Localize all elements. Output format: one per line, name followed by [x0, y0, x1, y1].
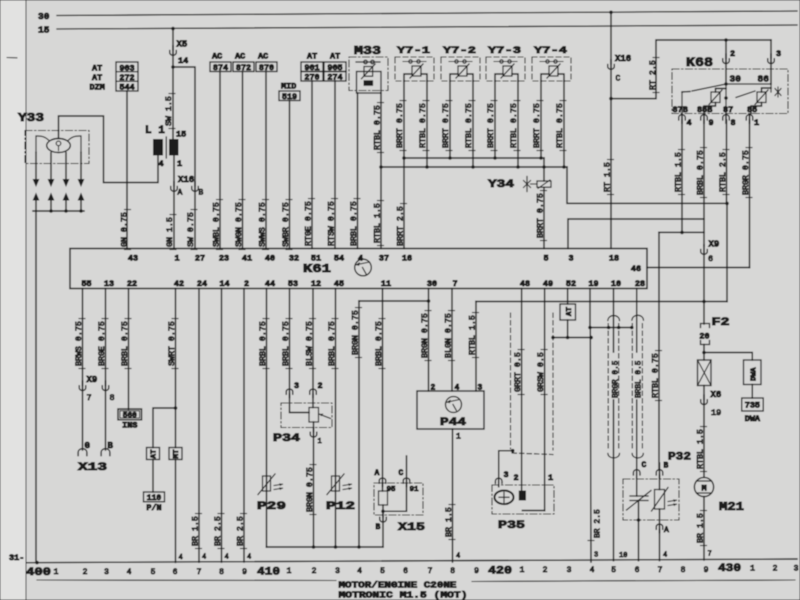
svg-text:P34: P34 — [273, 433, 301, 445]
svg-text:BRBL 0.75: BRBL 0.75 — [259, 321, 268, 366]
svg-text:BLSW 0.75: BLSW 0.75 — [305, 321, 314, 366]
fuel pump motor M21 (in-tank) — [694, 477, 713, 496]
svg-text:C: C — [399, 469, 404, 478]
svg-text:BRGR 0.5: BRGR 0.5 — [612, 360, 620, 398]
svg-text:BRBL 0.75: BRBL 0.75 — [282, 321, 291, 366]
svg-text:31-: 31- — [9, 553, 24, 563]
svg-text:A: A — [375, 469, 380, 478]
svg-text:F2: F2 — [712, 317, 730, 329]
svg-text:7: 7 — [452, 279, 457, 289]
svg-text:7: 7 — [658, 566, 663, 575]
connector X16 pin B — [192, 187, 199, 192]
wire BRWS 0.75 K61-55 to X13-G — [82, 289, 84, 386]
wire RTBL 0.75 Y7-3 to supply bus — [517, 81, 519, 167]
svg-text:52: 52 — [566, 279, 576, 289]
connector X6 pin 19 — [703, 386, 705, 400]
svg-text:420: 420 — [488, 566, 512, 578]
connector X9 pin 8 — [102, 386, 109, 391]
svg-text:GN 0.75: GN 0.75 — [120, 212, 129, 247]
K68 pin 3 — [768, 59, 775, 64]
svg-text:24: 24 — [197, 279, 207, 289]
svg-text:48: 48 — [520, 279, 530, 289]
wire GRRT 0.5 K61-48 to P35 pin 2 (shielded) — [521, 289, 523, 492]
wire BRGN 0.75 P34-1 to sensor ground bus — [313, 436, 315, 547]
svg-text:RTBL 0.75: RTBL 0.75 — [419, 103, 428, 148]
svg-text:X16: X16 — [615, 54, 631, 64]
svg-text:5: 5 — [543, 254, 548, 264]
svg-text:X6: X6 — [711, 390, 722, 400]
K68 pin 4 — [679, 115, 686, 120]
svg-text:RTBL 0.75: RTBL 0.75 — [373, 105, 382, 150]
svg-text:AC: AC — [258, 52, 268, 62]
svg-text:11: 11 — [381, 279, 391, 289]
svg-text:BRGN 0.75: BRGN 0.75 — [306, 467, 315, 512]
svg-text:872: 872 — [236, 63, 251, 73]
connector X5 pin 14 — [172, 29, 174, 50]
svg-text:18: 18 — [609, 254, 619, 264]
Y33 spark gap arrows — [35, 153, 37, 180]
svg-text:4: 4 — [456, 553, 460, 561]
svg-text:15: 15 — [38, 25, 50, 36]
svg-text:30: 30 — [38, 11, 50, 22]
intake air temp sensor P12 — [332, 476, 340, 491]
svg-text:Y34: Y34 — [488, 179, 515, 191]
svg-text:P/N: P/N — [146, 503, 161, 513]
svg-text:1: 1 — [318, 438, 322, 446]
svg-text:7: 7 — [87, 393, 92, 403]
option box DWA — [744, 360, 762, 385]
svg-text:2: 2 — [83, 568, 88, 577]
svg-text:BRRT 0.75: BRRT 0.75 — [533, 103, 542, 148]
wire BRBL 0.5 K61-28 to P32 pin C — [636, 289, 638, 353]
option branch to AT box — [153, 408, 176, 448]
wire GRSW 0.5 K61-49 to P35 pin 1 (shielded) — [544, 289, 546, 511]
svg-text:BRGN 0.75: BRGN 0.75 — [421, 313, 430, 358]
svg-text:27: 27 — [195, 254, 205, 264]
svg-text:6: 6 — [403, 567, 408, 576]
svg-text:2: 2 — [730, 49, 735, 59]
supply net RTBL to F2 junction — [476, 301, 727, 303]
svg-text:K61: K61 — [303, 262, 331, 276]
svg-text:INS: INS — [122, 421, 137, 431]
svg-text:4: 4 — [358, 254, 363, 264]
svg-text:2: 2 — [312, 567, 317, 576]
junction on net 15 at X5 drop — [171, 27, 175, 31]
svg-text:6: 6 — [173, 568, 178, 577]
wire SWBR 0.75 to K61 pin 32 — [289, 101, 291, 249]
svg-text:1: 1 — [456, 433, 461, 442]
Y33 common bus — [33, 210, 84, 212]
coolant temp sensor P29 — [263, 476, 271, 491]
wire RTBL 1.5 supply to P44 pin 3 — [475, 302, 477, 392]
option box AT on K61-52 — [567, 289, 569, 305]
P44 pin 1 to rail — [452, 429, 454, 562]
svg-text:42: 42 — [174, 279, 184, 289]
svg-text:30: 30 — [730, 74, 742, 85]
svg-text:49: 49 — [543, 279, 553, 289]
svg-text:901: 901 — [304, 63, 319, 73]
svg-text:110: 110 — [147, 494, 162, 503]
wire BR 2.5 K61-2 to rail — [243, 289, 245, 563]
throttle potentiometer P34 — [281, 403, 332, 428]
svg-text:7: 7 — [197, 568, 202, 577]
svg-text:2: 2 — [244, 279, 249, 289]
svg-text:A: A — [664, 526, 669, 535]
svg-text:BRGE 0.75: BRGE 0.75 — [98, 321, 107, 366]
svg-text:430: 430 — [718, 563, 741, 575]
svg-text:8: 8 — [110, 393, 115, 403]
ground wire Y33 to rail 31 — [35, 211, 37, 563]
svg-text:4: 4 — [687, 118, 692, 128]
svg-text:12: 12 — [311, 279, 321, 289]
svg-text:1: 1 — [750, 565, 755, 574]
svg-text:BRRT 0.75: BRRT 0.75 — [487, 103, 496, 148]
svg-text:P32: P32 — [668, 452, 691, 464]
svg-text:RTBL 1.5: RTBL 1.5 — [674, 152, 683, 192]
K68 coil 2 — [757, 92, 766, 103]
svg-text:1: 1 — [754, 118, 759, 128]
wire RT 2.5 feed to relay K68 — [611, 40, 771, 99]
svg-text:RTBL 0.75: RTBL 0.75 — [510, 103, 519, 148]
svg-text:7: 7 — [428, 567, 433, 576]
svg-text:4: 4 — [159, 159, 164, 169]
svg-text:5: 5 — [151, 568, 156, 577]
K68 pin 8 — [723, 115, 730, 120]
sensor ground bus — [267, 546, 384, 548]
wire L1 terminal 1 to X16-A — [173, 155, 175, 186]
svg-text:K68: K68 — [686, 56, 713, 70]
svg-text:2: 2 — [773, 565, 778, 574]
svg-text:BRBL 0.75: BRBL 0.75 — [328, 321, 337, 366]
P32 pin A to rail — [659, 509, 661, 524]
cable shield tube around BRBL 0.5 — [632, 315, 644, 320]
svg-text:3: 3 — [504, 470, 509, 480]
svg-text:SWWS 0.75: SWWS 0.75 — [258, 202, 267, 247]
knock sensor P35 — [492, 485, 554, 514]
K68 internal contact 30 — [724, 82, 728, 86]
svg-text:2: 2 — [318, 381, 323, 391]
svg-text:BRRT 0.75: BRRT 0.75 — [442, 103, 451, 148]
connector X15 pin B — [382, 511, 384, 517]
svg-text:8: 8 — [731, 118, 736, 128]
svg-text:3: 3 — [335, 567, 340, 576]
wire RTBL 1.5 K68-4 to P32 junction — [659, 231, 704, 233]
svg-text:AT: AT — [151, 449, 159, 459]
svg-text:SWRT 0.75: SWRT 0.75 — [168, 321, 177, 366]
wire RTBL 0.75 Y7-4 to supply bus — [563, 81, 565, 167]
svg-text:B: B — [199, 189, 204, 198]
svg-text:MID: MID — [281, 82, 296, 92]
svg-text:15: 15 — [176, 130, 186, 140]
svg-text:7: 7 — [708, 551, 712, 559]
wire supply bus to relay K68 contact 87 — [567, 167, 727, 203]
wire RTBL 0.75 to P32 pin B — [658, 232, 660, 470]
svg-text:37: 37 — [379, 254, 389, 264]
option box AT — [147, 448, 160, 460]
svg-text:43: 43 — [128, 254, 138, 264]
svg-text:M21: M21 — [719, 500, 744, 514]
wire BRGR 0.5 K61-10 to rail — [613, 289, 615, 353]
svg-text:86: 86 — [758, 74, 770, 85]
svg-text:2: 2 — [514, 473, 519, 483]
svg-text:4: 4 — [202, 554, 206, 562]
wire BRGR 0.75 K68-1 to K61 pin 46 — [749, 120, 751, 268]
svg-text:RT 1.5: RT 1.5 — [603, 162, 612, 192]
svg-text:5: 5 — [611, 566, 616, 575]
svg-text:MT: MT — [173, 449, 181, 459]
ECU K61 Motronic control unit — [70, 249, 647, 289]
cable shield tube around BRGR 0.5 — [608, 316, 620, 321]
svg-text:DZM: DZM — [90, 83, 105, 93]
K68 coil 1 — [711, 92, 720, 103]
wire BRGN 0.75 sensor ground to K61-30 branch — [358, 301, 360, 547]
svg-text:8: 8 — [681, 566, 686, 575]
svg-text:410: 410 — [257, 567, 280, 579]
svg-text:13: 13 — [104, 279, 114, 289]
svg-text:AC: AC — [235, 52, 245, 62]
svg-text:SWGN 0.75: SWGN 0.75 — [235, 202, 244, 247]
svg-text:BR 1.5: BR 1.5 — [696, 513, 705, 543]
branch to anti-theft DWA — [704, 353, 752, 361]
svg-text:GRSW 0.5: GRSW 0.5 — [537, 352, 546, 392]
wire BRBL 0.75 K61-53 to P34 pin 3 — [289, 289, 291, 389]
system label bracket — [37, 579, 336, 582]
wire RTBL 0.75 Y7-2 to supply bus — [472, 81, 474, 167]
wire BRRT 0.75 Y7-4 to injector bus — [540, 81, 542, 158]
injector supply bus RTBL — [381, 166, 567, 168]
svg-text:19: 19 — [711, 408, 721, 418]
wire BRRT 0.75 Y7-2 to injector bus — [449, 81, 451, 158]
svg-text:P44: P44 — [440, 417, 467, 429]
svg-text:87B: 87B — [673, 105, 688, 115]
wire BRRT 0.75 Y7-3 to injector bus — [494, 81, 496, 158]
svg-text:46: 46 — [631, 264, 641, 274]
junction M33 wire on injector supply bus — [379, 165, 383, 169]
svg-text:B: B — [376, 523, 381, 532]
svg-text:9: 9 — [474, 567, 479, 576]
svg-text:28: 28 — [635, 279, 645, 289]
svg-text:1: 1 — [520, 566, 525, 575]
svg-text:8: 8 — [450, 567, 455, 576]
wire RTGE 0.75 to K61 pin 51 — [311, 81, 313, 249]
wire RT 1.5 X16-C to K61 pin 18 — [610, 68, 612, 249]
svg-text:SW 0.75: SW 0.75 — [187, 212, 196, 247]
svg-text:P35: P35 — [498, 520, 526, 532]
option box MT — [169, 448, 182, 460]
wire L1 terminal 4 to distributor — [59, 116, 159, 183]
wire BRRT 0.75 Y34 to K61 pin 5 — [543, 167, 545, 181]
svg-text:BLGN 0.75: BLGN 0.75 — [444, 313, 453, 358]
wire X15-B to sensor ground bus — [382, 521, 384, 547]
svg-text:BRBL 0.75: BRBL 0.75 — [375, 321, 384, 366]
code box 110 P/N — [144, 492, 165, 502]
svg-text:9: 9 — [709, 118, 714, 128]
svg-text:RTBL 2.5: RTBL 2.5 — [719, 152, 728, 192]
svg-text:BRBL 0.5: BRBL 0.5 — [636, 360, 644, 398]
svg-text:44: 44 — [265, 279, 275, 289]
svg-text:8: 8 — [219, 568, 224, 577]
svg-text:SWBL 0.75: SWBL 0.75 — [212, 202, 221, 247]
K68 pin 9 — [701, 115, 708, 120]
svg-text:4: 4 — [357, 567, 362, 576]
svg-text:6: 6 — [708, 254, 713, 264]
svg-text:GN 1.5: GN 1.5 — [166, 217, 175, 247]
shield drain to P35 pin 3 — [511, 449, 515, 453]
svg-text:4: 4 — [225, 554, 229, 562]
svg-text:4: 4 — [179, 554, 183, 562]
svg-text:BRBL 0.75: BRBL 0.75 — [696, 150, 705, 195]
svg-text:45: 45 — [334, 279, 344, 289]
wire BRBL 0.75 K61-45 to P12 — [335, 289, 337, 548]
wire RTBL 1.5 K68-4 — [681, 120, 683, 232]
svg-text:272: 272 — [119, 73, 134, 83]
svg-text:905: 905 — [327, 63, 342, 73]
shield drain to P32 cable shields — [590, 327, 632, 329]
svg-text:AT: AT — [307, 52, 317, 62]
svg-text:3: 3 — [104, 568, 109, 577]
wire SW 1.5 from X5 to coil L1 terminal 15 — [172, 54, 174, 67]
svg-text:4: 4 — [663, 552, 667, 560]
svg-text:X13: X13 — [78, 462, 108, 474]
wire GN 0.75 to K61 pin 43 — [126, 91, 128, 249]
svg-text:X9: X9 — [709, 240, 720, 250]
svg-text:X16: X16 — [178, 175, 194, 185]
wire BRBL 0.75 K61-11 to X15-A — [382, 289, 384, 478]
injector return bus — [404, 157, 544, 159]
svg-text:1: 1 — [548, 473, 553, 483]
svg-text:Y7-1: Y7-1 — [397, 45, 430, 57]
wire BRBL 0.75 K61-22 to code 560 — [128, 289, 130, 410]
svg-text:3: 3 — [776, 49, 781, 59]
svg-text:RT 2.5: RT 2.5 — [649, 60, 658, 90]
svg-text:3: 3 — [594, 552, 598, 560]
wire K61-42 to ground rail — [175, 460, 177, 563]
svg-text:560: 560 — [123, 413, 137, 421]
junction on net 30 at X16-C drop — [609, 11, 613, 15]
cable shield around P35 wires — [510, 313, 512, 449]
wire SWWS 0.75 to K61 pin 40 — [265, 72, 267, 249]
svg-text:AT: AT — [330, 52, 340, 62]
svg-text:9: 9 — [704, 566, 709, 575]
svg-text:BR 2.5: BR 2.5 — [214, 516, 223, 546]
svg-text:P29: P29 — [257, 501, 286, 513]
svg-text:23: 23 — [219, 254, 229, 264]
svg-text:AT: AT — [566, 306, 574, 316]
wire BRBL 0.75 K68-9 to X9-6 — [703, 120, 705, 246]
svg-text:2: 2 — [543, 566, 548, 575]
shield drain wire K61-52 to shields — [567, 320, 569, 338]
svg-text:3: 3 — [568, 254, 573, 264]
svg-text:SW 1.5: SW 1.5 — [165, 96, 174, 126]
wire GN 1.5 X16-A to K61 pin 1 — [173, 190, 175, 249]
K68 pin 1 — [746, 115, 753, 120]
svg-text:SWBR 0.75: SWBR 0.75 — [282, 202, 291, 247]
wire BR 1.5 K61-24 to rail — [198, 289, 200, 563]
svg-text:10: 10 — [619, 552, 627, 560]
svg-text:M33: M33 — [354, 44, 381, 58]
svg-text:91: 91 — [410, 486, 420, 494]
wire K61 pin 3 to connector X9-6 — [568, 219, 704, 249]
svg-text:903: 903 — [119, 63, 134, 73]
svg-text:4: 4 — [247, 554, 251, 562]
lambda sensor heater X15 — [374, 483, 423, 515]
svg-text:51: 51 — [311, 254, 321, 264]
svg-text:RTSW 0.75: RTSW 0.75 — [327, 201, 336, 246]
svg-text:19: 19 — [588, 279, 598, 289]
wire BLSW 0.75 K61-12 to P34 pin 2 — [312, 289, 314, 389]
svg-text:6: 6 — [635, 566, 640, 575]
registration mark — [7, 57, 17, 59]
svg-text:BRBL 0.75: BRBL 0.75 — [121, 321, 130, 366]
svg-text:1: 1 — [287, 567, 292, 576]
svg-text:87: 87 — [723, 105, 733, 115]
svg-text:4: 4 — [127, 568, 132, 577]
P32 case ground to rail — [638, 520, 640, 561]
svg-text:MOTRONIC M1.5 (MOT): MOTRONIC M1.5 (MOT) — [339, 590, 468, 600]
svg-text:400: 400 — [26, 567, 51, 579]
wire BR 1.5 M21 to rail — [703, 497, 705, 560]
wire SW 0.75 X16-B to K61 pin 27 — [194, 190, 196, 249]
svg-text:41: 41 — [242, 254, 252, 264]
wire RTBL 0.75 Y7-1 to supply bus — [426, 81, 428, 167]
svg-text:4: 4 — [590, 566, 595, 575]
svg-text:L 1: L 1 — [145, 125, 165, 137]
wire BRRT 0.75/BRRT 2.5 Y7-1 to bus and K61 pin 16 — [403, 81, 405, 249]
svg-text:14: 14 — [219, 279, 229, 289]
instrument warning lamp — [703, 353, 705, 361]
svg-text:BRGR 0.75: BRGR 0.75 — [742, 150, 751, 195]
svg-text:BRRT 0.75: BRRT 0.75 — [396, 103, 405, 148]
svg-text:RTBL 1.5: RTBL 1.5 — [373, 203, 382, 243]
svg-text:1: 1 — [54, 568, 59, 577]
svg-text:1: 1 — [177, 159, 182, 169]
svg-text:BR 2.5: BR 2.5 — [594, 509, 603, 538]
wire SWRT 0.75 K61-42 — [175, 289, 177, 448]
svg-text:RTBL 0.75: RTBL 0.75 — [465, 103, 474, 148]
svg-text:3: 3 — [794, 565, 799, 574]
svg-text:AC: AC — [212, 52, 222, 62]
svg-text:RTBL 0.75: RTBL 0.75 — [651, 353, 660, 398]
svg-text:X5: X5 — [177, 40, 188, 50]
K68 contact 87B branch — [682, 91, 690, 94]
wire RTBL 1.5 X6 to M21 — [703, 403, 705, 477]
wire BRGN 0.75 K61-30 to P44 pin 2 — [428, 289, 430, 392]
svg-text:X15: X15 — [398, 522, 426, 534]
svg-text:BRWS 0.75: BRWS 0.75 — [75, 321, 84, 366]
svg-text:BRRT 2.5: BRRT 2.5 — [396, 206, 405, 246]
svg-text:GRRT 0.5: GRRT 0.5 — [514, 352, 523, 392]
connector X16 pin C — [610, 12, 612, 64]
svg-text:RTBL 1.5: RTBL 1.5 — [468, 315, 477, 355]
svg-text:10: 10 — [611, 279, 621, 289]
wire RTBL 0.75 / RTBL 1.5 M33 to K61 pin 37 — [380, 93, 382, 249]
svg-text:P12: P12 — [326, 501, 355, 513]
svg-text:BR 2.5: BR 2.5 — [236, 516, 245, 546]
K68 second contact arm — [736, 91, 755, 98]
svg-text:AT: AT — [92, 64, 102, 74]
svg-text:3: 3 — [294, 381, 299, 391]
svg-text:85B: 85B — [697, 105, 712, 115]
wire RTSW 0.75 to K61 pin 54 — [334, 81, 336, 249]
wire BRBL 0.75 M33 to K61 pin 4 — [357, 93, 359, 249]
svg-text:Y7-4: Y7-4 — [534, 45, 567, 57]
svg-text:1: 1 — [174, 254, 179, 264]
svg-text:X9: X9 — [87, 375, 98, 385]
svg-text:C: C — [642, 461, 647, 470]
wire BR 2.5 K61-14 to rail — [221, 289, 223, 563]
svg-text:RTBL 0.75: RTBL 0.75 — [556, 103, 565, 148]
svg-text:RTGE 0.75: RTGE 0.75 — [304, 201, 313, 246]
